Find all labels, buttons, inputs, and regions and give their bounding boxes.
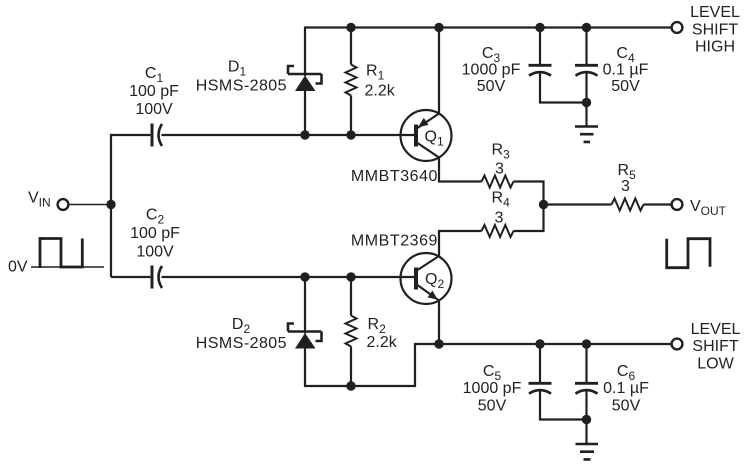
- resistor R1 zigzag: [346, 65, 357, 96]
- resistor R5 zigzag: [612, 199, 644, 211]
- svg-text:VIN: VIN: [28, 190, 51, 210]
- capacitor C6 flat plate: [575, 382, 598, 385]
- input square wave pulse: [40, 239, 82, 269]
- svg-text:LEVEL: LEVEL: [691, 321, 741, 338]
- input square wave thin baseline: [31, 266, 104, 268]
- wire D2 lower lead and bottom-left return: [305, 344, 439, 386]
- junction dot R1 bottom / C1 row: [346, 130, 355, 139]
- svg-text:SHIFT: SHIFT: [692, 338, 738, 355]
- junction dot C3/C4 bottom: [582, 98, 591, 107]
- junction dot top rail C4: [582, 23, 591, 32]
- output square wave symbol: [667, 239, 710, 268]
- svg-text:Q1: Q1: [425, 129, 444, 149]
- junction dot top rail R1: [346, 23, 355, 32]
- transistor Q1 base bar: [414, 125, 418, 147]
- junction dot top rail Q1 emitter: [434, 23, 443, 32]
- transistor Q2 emitter diagonal: [416, 284, 439, 301]
- svg-text:50V: 50V: [477, 78, 506, 95]
- capacitor C5 flat plate: [529, 382, 552, 385]
- wire D1 upper lead: [304, 26, 306, 76]
- wire Q1 emitter to top rail: [438, 26, 440, 113]
- wire C5 top lead: [539, 344, 541, 382]
- resistor R2 zigzag: [346, 316, 357, 347]
- svg-text:HIGH: HIGH: [695, 39, 735, 56]
- junction dot R2 bottom wire: [346, 381, 355, 390]
- svg-text:3: 3: [621, 178, 630, 195]
- ground (bottom, below C6): [576, 444, 599, 459]
- svg-text:2.2k: 2.2k: [365, 83, 396, 100]
- transistor Q2 emitter arrow (NPN): [428, 291, 438, 300]
- junction dot C5/C6 bottom: [582, 415, 591, 424]
- svg-text:100 pF: 100 pF: [129, 83, 179, 100]
- junction dot R2 top / C2 row: [346, 272, 355, 281]
- wire C6 top lead: [585, 344, 587, 382]
- capacitor C6 curved plate: [576, 390, 598, 394]
- wire D1 lower lead: [304, 90, 306, 136]
- ground (top, below C4): [575, 127, 598, 142]
- svg-text:C1: C1: [145, 65, 164, 85]
- wire R4 right to Vout node: [514, 205, 544, 232]
- svg-text:50V: 50V: [612, 398, 641, 415]
- wire R1 bottom lead: [350, 95, 352, 136]
- capacitor C4 curved plate: [576, 72, 598, 76]
- svg-text:1000 pF: 1000 pF: [463, 380, 522, 397]
- diode D1 triangle: [295, 76, 316, 92]
- junction dot bottom rail C6: [582, 339, 591, 348]
- wire Q2 emitter down to bottom rail: [438, 301, 440, 345]
- svg-text:MMBT3640: MMBT3640: [351, 168, 438, 185]
- svg-text:100V: 100V: [135, 101, 173, 118]
- svg-text:VOUT: VOUT: [690, 198, 727, 218]
- transistor Q1 circle: [401, 110, 452, 161]
- svg-text:C2: C2: [146, 207, 165, 227]
- svg-text:2.2k: 2.2k: [367, 334, 398, 351]
- wire C1 row right (to Q1 base): [162, 134, 417, 136]
- junction dot Vout node: [539, 200, 548, 209]
- wire left input bus: [110, 134, 112, 277]
- svg-text:SHIFT: SHIFT: [692, 21, 738, 38]
- wire C1 row left: [111, 134, 150, 136]
- wire C4 bottom lead to ground: [585, 71, 587, 127]
- junction dot D1 anode / C1 row: [300, 130, 309, 139]
- svg-text:0V: 0V: [8, 259, 28, 276]
- resistor R3 zigzag: [482, 176, 514, 188]
- wire Q1 collector down to R3 row: [439, 158, 482, 182]
- svg-text:50V: 50V: [611, 78, 640, 95]
- capacitor C2 curved plate: [159, 266, 163, 288]
- svg-text:MMBT2369: MMBT2369: [351, 233, 438, 250]
- svg-text:R4: R4: [492, 189, 511, 209]
- diode D2 triangle: [295, 333, 316, 349]
- junction dot bottom rail C5: [535, 339, 544, 348]
- wire R5 to Vout terminal: [644, 203, 671, 205]
- wire C3 bottom lead to C4 junction: [540, 71, 587, 103]
- svg-text:100 pF: 100 pF: [130, 225, 180, 242]
- svg-text:HSMS-2805: HSMS-2805: [196, 78, 287, 95]
- resistor R4 zigzag: [482, 225, 514, 237]
- svg-text:Q2: Q2: [425, 271, 444, 291]
- terminal V_OUT: [672, 199, 683, 210]
- transistor Q2 base bar: [414, 268, 418, 290]
- wire R2 top lead: [350, 276, 352, 316]
- wire C6 bottom lead to ground: [585, 389, 587, 444]
- capacitor C2 flat plate: [151, 266, 154, 289]
- svg-text:0.1 µF: 0.1 µF: [603, 380, 649, 397]
- capacitor C1 curved plate: [159, 124, 163, 146]
- transistor Q2 collector diagonal: [416, 256, 439, 271]
- wire V_IN stub: [70, 204, 111, 206]
- capacitor C4 flat plate: [575, 64, 598, 67]
- svg-text:D1: D1: [228, 59, 247, 79]
- svg-text:3: 3: [495, 209, 504, 226]
- wire bottom rail: [439, 343, 671, 345]
- svg-text:1000 pF: 1000 pF: [462, 62, 521, 79]
- wire R1 top lead: [350, 26, 352, 64]
- wire C2 row right (to Q2 base): [162, 276, 417, 278]
- svg-text:D2: D2: [232, 316, 251, 336]
- junction dot bottom rail Q2 emitter: [434, 339, 443, 348]
- svg-text:R3: R3: [492, 142, 511, 162]
- terminal V_IN: [58, 199, 69, 210]
- svg-text:0.1 µF: 0.1 µF: [603, 62, 649, 79]
- svg-text:HSMS-2805: HSMS-2805: [196, 335, 287, 352]
- wire Q2 collector up to R4 row: [439, 231, 482, 257]
- wire C5 bottom lead to C6 junction: [540, 389, 587, 420]
- svg-text:50V: 50V: [478, 398, 507, 415]
- wire D2 upper lead: [304, 276, 306, 334]
- capacitor C3 curved plate: [529, 72, 551, 76]
- capacitor C1 flat plate: [151, 124, 154, 147]
- svg-text:3: 3: [495, 161, 504, 178]
- svg-text:R2: R2: [368, 316, 387, 336]
- svg-text:LEVEL: LEVEL: [690, 4, 740, 21]
- transistor Q1 emitter arrow (PNP): [418, 118, 429, 127]
- svg-text:LOW: LOW: [697, 355, 734, 372]
- diode D1 schottky cathode bar: [288, 66, 322, 84]
- junction dot top rail C3: [535, 23, 544, 32]
- terminal LEVEL SHIFT HIGH: [672, 22, 683, 33]
- wire top rail: [305, 26, 671, 28]
- wire Vout row to R5: [544, 203, 612, 205]
- wire C4 top lead: [585, 26, 587, 64]
- wire C3 top lead: [539, 26, 541, 64]
- transistor Q2 circle: [401, 253, 452, 304]
- transistor Q1 emitter diagonal: [416, 114, 439, 130]
- capacitor C5 curved plate: [529, 390, 551, 394]
- svg-text:R1: R1: [366, 63, 385, 83]
- capacitor C3 flat plate: [529, 64, 552, 67]
- wire C2 row left: [111, 276, 150, 278]
- wire R2 bottom lead: [350, 346, 352, 387]
- junction dot D2 / C2 row: [300, 272, 309, 281]
- wire R3 right to Vout node: [514, 182, 544, 205]
- terminal LEVEL SHIFT LOW: [672, 339, 683, 350]
- junction dot V_IN bus: [106, 200, 115, 209]
- diode D2 schottky cathode bar: [288, 324, 322, 342]
- svg-text:100V: 100V: [136, 244, 174, 261]
- transistor Q1 collector diagonal: [416, 142, 439, 158]
